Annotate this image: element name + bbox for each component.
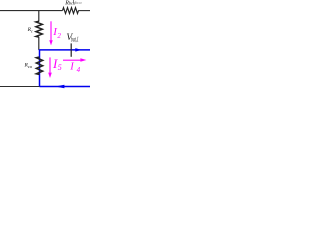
svg-text:bca: bca: [75, 0, 82, 5]
wire blue loop middle horizontal: [39, 49, 90, 51]
wire bottom black segment: [0, 86, 40, 88]
current arrow I5 (magenta, down): [48, 57, 52, 78]
label R_bca: [64, 0, 76, 6]
wire vertical lower (R_c to blue node): [38, 37, 40, 50]
wire blue loop bottom horizontal: [40, 86, 91, 88]
label I2: [52, 26, 61, 40]
resistor R_c (vertical zigzag): [36, 21, 42, 37]
label I5: [52, 56, 62, 72]
blue loop direction arrowhead (right, middle wire): [75, 48, 81, 52]
svg-text:bat,1: bat,1: [71, 36, 79, 44]
wire vertical upper (node to R_c): [38, 11, 40, 22]
label R_ca: [24, 63, 32, 69]
svg-text:Rca: Rca: [24, 63, 32, 69]
svg-text:I: I: [69, 62, 74, 73]
wire top-left segment: [0, 10, 63, 12]
svg-text:2: 2: [57, 32, 61, 40]
svg-text:4: 4: [77, 66, 81, 74]
resistor R_bca (horizontal zigzag): [63, 8, 79, 14]
svg-text:5: 5: [58, 63, 62, 72]
resistor R_ca (vertical zigzag, black over blue wire): [36, 57, 42, 74]
wire top-right segment: [78, 10, 90, 12]
label I4: [69, 62, 80, 75]
current arrow I2 (magenta, down): [49, 21, 53, 45]
cropped label fragment (top edge): [73, 0, 82, 5]
current arrow I4 (magenta, right): [63, 58, 86, 62]
label R_c: [27, 27, 33, 33]
label V_bat,1: [66, 33, 78, 44]
battery V_bat,1 plate: [70, 43, 72, 56]
wire blue loop vertical: [39, 50, 41, 87]
svg-text:Rc: Rc: [27, 27, 33, 33]
blue loop direction arrowhead (left, bottom wire): [55, 85, 64, 88]
